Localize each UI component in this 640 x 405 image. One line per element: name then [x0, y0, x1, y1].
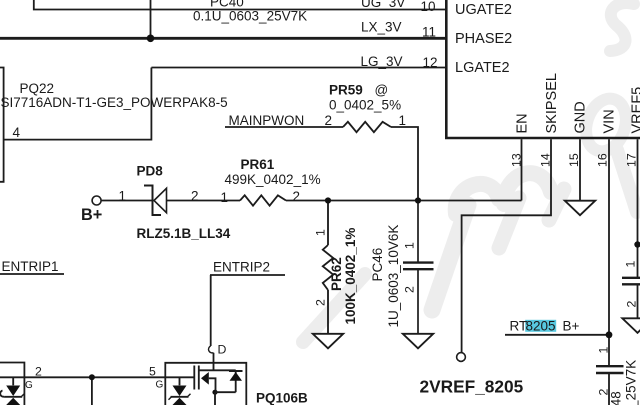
svg-text:PR62: PR62 — [329, 257, 344, 291]
svg-text:PQ22: PQ22 — [20, 81, 55, 96]
svg-text:2: 2 — [314, 299, 328, 306]
svg-text:MAINPWON: MAINPWON — [229, 113, 305, 128]
capacitor PC46 — [403, 201, 434, 334]
node 2VREF_8205 terminal circle — [457, 353, 466, 362]
IC pin 15 GND stub — [579, 139, 581, 201]
svg-text:8205: 8205 — [526, 319, 556, 334]
svg-text:11: 11 — [422, 24, 436, 39]
svg-text:0.1U_0603_25V7K: 0.1U_0603_25V7K — [624, 360, 639, 405]
D curl — [209, 346, 214, 353]
wire MAINPWON to PR59 — [225, 126, 343, 128]
wire PR59 pin1 down to node — [391, 127, 418, 201]
wire UG_3V corner from top — [34, 0, 446, 10]
svg-text:PQ106B: PQ106B — [256, 391, 308, 405]
IC pin 16 VIN wire — [608, 139, 610, 366]
svg-text:14: 14 — [539, 153, 553, 167]
zener diode PD8 — [144, 186, 167, 216]
wire below gate junction — [91, 377, 93, 405]
junction EN node / PC46 — [415, 197, 421, 203]
wire vertical into LX node — [150, 0, 152, 38]
svg-text:5: 5 — [149, 365, 156, 379]
svg-text:1: 1 — [119, 188, 127, 203]
svg-text:2: 2 — [191, 188, 199, 203]
ground at right edge — [622, 318, 640, 333]
svg-text:UG_3V: UG_3V — [361, 0, 405, 10]
svg-text:B+: B+ — [563, 319, 580, 334]
junction on LX_3V net — [147, 35, 155, 43]
wire ENTRIP2 label — [210, 274, 285, 276]
ground below PR62 — [313, 334, 343, 349]
svg-text:SKIPSEL: SKIPSEL — [544, 73, 560, 133]
svg-text:2: 2 — [625, 301, 639, 308]
IC pin 14 SKIPSEL wire to 2VREF — [462, 139, 551, 352]
wire ENTRIP2 down to D — [210, 275, 212, 346]
svg-text:@: @ — [375, 83, 389, 98]
ground at pin15 GND — [565, 201, 595, 216]
svg-text:2: 2 — [35, 365, 42, 379]
svg-text:PD8: PD8 — [137, 164, 164, 179]
svg-text:LG_3V: LG_3V — [361, 54, 403, 69]
PQ106A box cut — [0, 363, 24, 405]
svg-text:15: 15 — [567, 153, 581, 167]
wire LG_3V — [151, 67, 446, 69]
junction PQ106B source — [212, 390, 217, 395]
junction pin17 node — [634, 241, 640, 247]
svg-text:D: D — [218, 343, 227, 357]
junction B+ / VIN — [606, 331, 613, 338]
svg-text:PHASE2: PHASE2 — [455, 31, 512, 47]
svg-text:2: 2 — [293, 189, 301, 204]
svg-text:B+: B+ — [81, 206, 102, 224]
gate zener PQ106B — [173, 386, 187, 397]
svg-text:1: 1 — [221, 190, 229, 205]
wire ENTRIP1 label — [0, 273, 64, 275]
svg-text:UGATE2: UGATE2 — [455, 2, 512, 18]
svg-text:0.1U_0603_25V7K: 0.1U_0603_25V7K — [193, 9, 307, 24]
svg-text:GND: GND — [573, 101, 589, 133]
svg-text:LGATE2: LGATE2 — [455, 60, 510, 76]
IC pin 13 EN stub — [521, 139, 523, 200]
svg-text:1: 1 — [624, 261, 638, 268]
IC pin 17 wire — [637, 139, 639, 318]
search highlight on 8205 — [525, 320, 556, 332]
svg-text:SI7716ADN-T1-GE3_POWERPAK8-5: SI7716ADN-T1-GE3_POWERPAK8-5 — [1, 95, 228, 110]
wire PQ22 pin4 to LGATE2 — [4, 68, 152, 140]
node B+ terminal circle — [92, 196, 101, 205]
svg-text:G: G — [25, 380, 33, 391]
svg-text:VREF5: VREF5 — [630, 87, 640, 134]
transistor PQ106B MOSFET symbol — [180, 363, 236, 405]
svg-text:0_0402_5%: 0_0402_5% — [329, 98, 401, 113]
svg-text:EN: EN — [515, 113, 531, 133]
svg-text:ENTRIP1: ENTRIP1 — [2, 259, 59, 274]
svg-text:100K_0402_1%: 100K_0402_1% — [343, 228, 358, 325]
resistor PR61 — [240, 195, 286, 205]
wire gate row PQ106 — [0, 376, 194, 378]
svg-text:1: 1 — [403, 242, 417, 249]
svg-text:16: 16 — [596, 153, 610, 167]
IC U1 RT8205 box outline — [445, 0, 640, 138]
svg-text:1U_0603_10V6K: 1U_0603_10V6K — [386, 225, 401, 328]
svg-text:VIN: VIN — [602, 109, 618, 133]
resistor PR59 — [343, 122, 391, 132]
svg-text:LX_3V: LX_3V — [361, 20, 402, 35]
svg-text:1: 1 — [399, 113, 407, 128]
wire B+ row — [101, 200, 521, 202]
svg-text:PC48: PC48 — [609, 391, 624, 405]
svg-text:12: 12 — [423, 55, 438, 70]
svg-text:2: 2 — [403, 286, 417, 293]
svg-text:10: 10 — [421, 0, 436, 14]
junction EN node / PR62 — [325, 197, 331, 203]
ground below PC46 — [403, 334, 433, 349]
svg-text:1: 1 — [597, 347, 611, 354]
capacitor PC48 — [596, 366, 624, 373]
svg-text:ENTRIP2: ENTRIP2 — [213, 260, 270, 275]
transistor PQ106A MOSFET symbol (clipped) — [0, 377, 13, 405]
capacitor C_pin17 (clipped) — [622, 278, 640, 285]
svg-text:499K_0402_1%: 499K_0402_1% — [225, 172, 321, 187]
wire curl to box — [213, 353, 215, 363]
svg-text:1: 1 — [314, 229, 328, 236]
watermark — [303, 3, 637, 342]
wire B+ net RT8205 — [505, 334, 609, 336]
junction gate net PQ106 — [89, 374, 95, 380]
PQ106B box — [165, 363, 246, 405]
svg-text:13: 13 — [510, 153, 524, 167]
svg-text:4: 4 — [13, 125, 21, 140]
svg-text:PC46: PC46 — [370, 248, 385, 282]
PQ22 box edge — [0, 68, 4, 182]
svg-text:2VREF_8205: 2VREF_8205 — [420, 376, 524, 396]
svg-text:G: G — [156, 380, 164, 391]
resistor PR62 vertical — [323, 201, 333, 334]
svg-text:2: 2 — [325, 113, 333, 128]
svg-text:17: 17 — [625, 153, 639, 167]
svg-text:PR61: PR61 — [241, 157, 275, 172]
wire below VIN cap — [608, 374, 610, 405]
wire LX_3V thick — [0, 37, 446, 40]
svg-text:RLZ5.1B_LL34: RLZ5.1B_LL34 — [137, 226, 231, 241]
svg-text:PR59: PR59 — [329, 83, 363, 98]
